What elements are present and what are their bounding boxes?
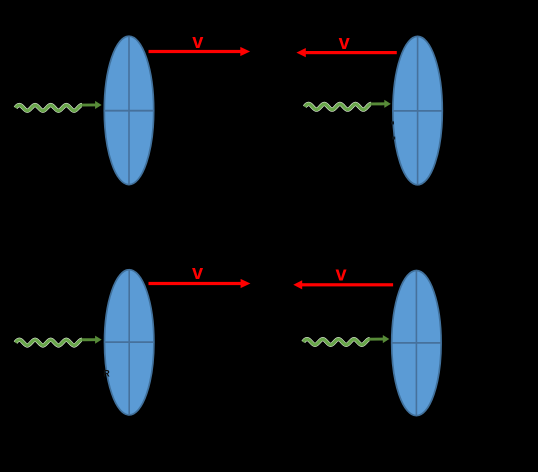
velocity arrow TL (rightward) — [149, 47, 251, 56]
velocity arrow TR (leftward) — [296, 48, 396, 57]
svg-text:v: v — [192, 31, 204, 53]
mirror ellipse BR — [392, 271, 441, 416]
mirror ellipse TL — [104, 36, 153, 184]
photon wavy arrow BL — [16, 336, 102, 346]
faint hidden label fragment on TR mirror edge (lower) — [392, 137, 395, 140]
mirror ellipse BL — [105, 270, 154, 415]
velocity arrow BR (leftward) — [293, 280, 393, 289]
photon wavy arrow BR — [303, 335, 389, 345]
faint hidden label fragment on TR mirror edge (upper) — [391, 121, 394, 124]
mirror ellipse TR — [393, 36, 442, 184]
velocity arrow BL (rightward) — [149, 279, 251, 288]
photon wavy arrow TL — [16, 101, 102, 111]
svg-text:v: v — [192, 262, 204, 284]
svg-text:v: v — [336, 264, 348, 286]
svg-text:R: R — [103, 369, 110, 379]
svg-text:v: v — [339, 32, 351, 54]
photon wavy arrow TR — [305, 100, 391, 110]
